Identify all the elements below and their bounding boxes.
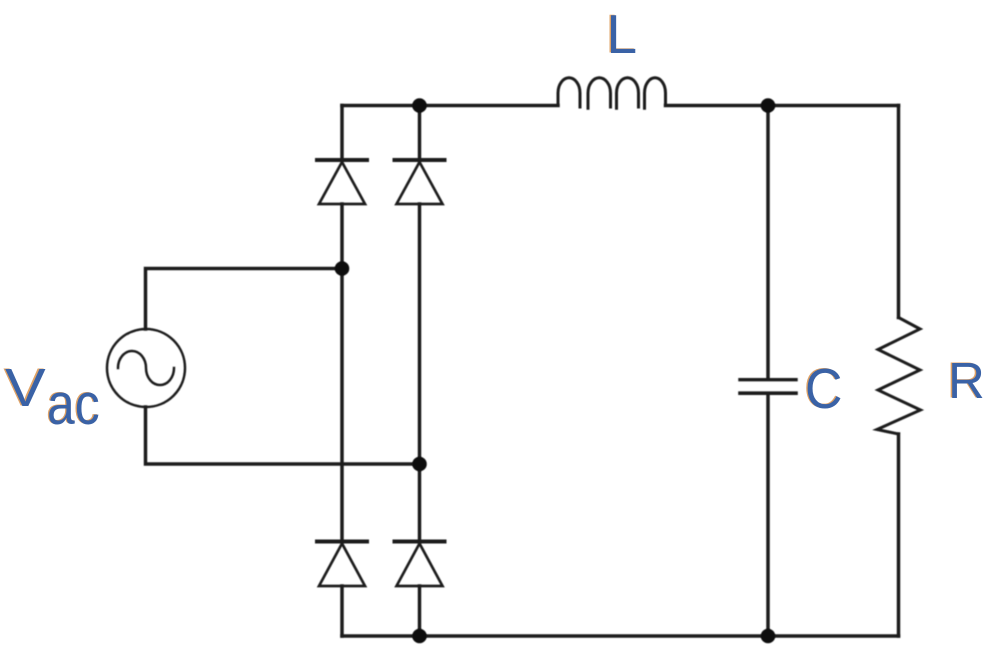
label C (804, 356, 843, 420)
source Vac circle (107, 329, 185, 407)
wire Vac top lead (146, 269, 343, 330)
label L (605, 3, 637, 66)
label Vac subscript ac (46, 372, 100, 437)
wire top rail right segment (666, 104, 899, 108)
diode D1 triangle (319, 162, 365, 204)
wire right branch lower (418, 586, 422, 636)
source Vac sine wave (118, 351, 174, 385)
svg-text:L: L (607, 3, 638, 65)
diode D3 cathode bar (317, 540, 367, 544)
diode D2 cathode bar (395, 158, 445, 162)
node Vac bottom to bridge (412, 457, 427, 472)
label R (947, 352, 985, 410)
wire right bridge branch upper (418, 106, 422, 161)
wire top rail left segment (342, 104, 558, 108)
node Vac top to bridge (335, 261, 350, 276)
label Vac (3, 358, 46, 418)
resistor R zigzag (877, 318, 921, 435)
wire right rail lower (897, 434, 901, 636)
node bottom rail capacitor junction (761, 629, 776, 644)
node top rail bridge junction (412, 98, 427, 113)
wire left bridge branch upper (340, 106, 344, 161)
diode D1 cathode bar (317, 158, 367, 162)
svg-text:V: V (5, 358, 46, 418)
diode D3 triangle (319, 544, 365, 587)
wire right rail upper (897, 106, 901, 318)
node top rail capacitor junction (761, 98, 776, 113)
wire Vac bottom lead (146, 407, 420, 464)
wire left branch middle (340, 204, 344, 542)
wire right branch middle (418, 204, 422, 542)
node bottom rail bridge junction (412, 629, 427, 644)
diode D4 cathode bar (395, 540, 445, 544)
svg-text:C: C (805, 357, 842, 421)
capacitor C bottom plate (740, 391, 796, 395)
wire bottom rail (342, 634, 899, 638)
svg-text:R: R (948, 352, 985, 409)
diode D4 triangle (397, 544, 443, 587)
diode D2 triangle (397, 162, 443, 204)
inductor L (558, 78, 666, 108)
svg-text:ac: ac (47, 373, 100, 437)
capacitor C top plate (740, 378, 796, 381)
wire capacitor branch upper (766, 106, 770, 379)
wire left branch lower (340, 586, 344, 636)
wire capacitor branch lower (766, 395, 770, 636)
